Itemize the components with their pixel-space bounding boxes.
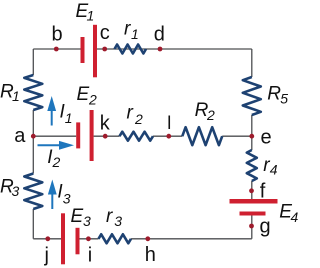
svg-text:r: r bbox=[124, 18, 131, 39]
resistor r4 bbox=[247, 150, 257, 181]
battery E3 (short plate) bbox=[76, 228, 80, 255]
svg-text:l: l bbox=[167, 113, 171, 133]
node b bbox=[54, 47, 59, 52]
battery E2 (short plate) bbox=[76, 122, 80, 148]
battery E4 (short plate) bbox=[240, 212, 266, 216]
svg-text:3: 3 bbox=[12, 183, 20, 199]
svg-text:1: 1 bbox=[65, 110, 73, 126]
node k bbox=[103, 134, 108, 139]
node h bbox=[145, 236, 150, 241]
node l bbox=[166, 134, 171, 139]
svg-text:g: g bbox=[260, 216, 271, 238]
wire bottom (j to h to bottom-right corner) bbox=[33, 238, 252, 240]
battery E1 (short plate) bbox=[81, 37, 85, 63]
svg-text:E: E bbox=[71, 206, 84, 227]
battery E4 (long plate) bbox=[230, 199, 278, 204]
wire left (top corner to a to bottom corner) bbox=[32, 49, 34, 239]
resistor r2 bbox=[120, 132, 154, 141]
node f bbox=[249, 188, 254, 193]
node a bbox=[31, 134, 36, 139]
node i bbox=[86, 236, 91, 241]
node e bbox=[249, 134, 254, 139]
svg-text:r: r bbox=[127, 102, 134, 123]
svg-text:i: i bbox=[88, 245, 92, 267]
resistor r3 bbox=[99, 234, 132, 243]
node j bbox=[45, 236, 50, 241]
battery E3 (tall plate) bbox=[61, 213, 65, 264]
svg-text:e: e bbox=[261, 126, 272, 148]
svg-text:1: 1 bbox=[131, 26, 139, 42]
wire right (top corner to e to f, g to bottom corner) bbox=[251, 49, 253, 239]
svg-text:d: d bbox=[154, 24, 165, 46]
svg-text:3: 3 bbox=[114, 213, 122, 229]
svg-text:2: 2 bbox=[206, 107, 215, 123]
svg-text:2: 2 bbox=[134, 111, 143, 127]
svg-text:j: j bbox=[44, 245, 49, 267]
svg-text:r: r bbox=[106, 206, 113, 227]
resistor R5 bbox=[243, 77, 261, 115]
svg-text:b: b bbox=[52, 24, 63, 46]
wire top (b to d to top-right corner) bbox=[33, 48, 252, 50]
svg-text:k: k bbox=[100, 113, 111, 135]
svg-text:f: f bbox=[260, 180, 266, 202]
battery E1 (tall plate) bbox=[93, 25, 97, 78]
current arrow I2 bbox=[38, 141, 75, 150]
svg-text:a: a bbox=[14, 125, 26, 147]
resistor r1 bbox=[115, 45, 147, 54]
svg-text:2: 2 bbox=[88, 92, 97, 108]
resistor R1 bbox=[24, 75, 42, 110]
svg-text:E: E bbox=[77, 84, 90, 105]
wire middle (a to e) bbox=[33, 135, 252, 137]
svg-text:1: 1 bbox=[12, 88, 20, 104]
resistor R3 bbox=[24, 174, 42, 210]
svg-text:3: 3 bbox=[83, 213, 91, 229]
battery E2 (tall plate) bbox=[90, 110, 94, 161]
current arrow I1 bbox=[47, 96, 56, 126]
svg-text:4: 4 bbox=[270, 162, 278, 178]
svg-text:5: 5 bbox=[280, 91, 288, 107]
svg-text:4: 4 bbox=[291, 209, 299, 225]
resistor R2 bbox=[182, 127, 222, 145]
node c bbox=[102, 47, 107, 52]
svg-text:h: h bbox=[145, 244, 156, 266]
svg-text:3: 3 bbox=[63, 190, 71, 206]
svg-text:2: 2 bbox=[52, 154, 61, 170]
node d bbox=[158, 47, 163, 52]
svg-text:c: c bbox=[100, 22, 110, 44]
svg-text:R: R bbox=[267, 84, 281, 105]
svg-text:1: 1 bbox=[87, 7, 95, 23]
current arrow I3 bbox=[48, 180, 57, 210]
node g bbox=[249, 224, 254, 229]
